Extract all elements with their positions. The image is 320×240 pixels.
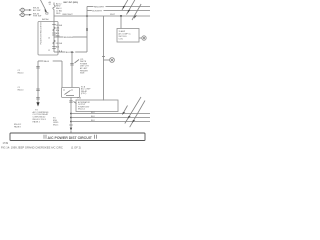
svg-text:F9 20A: F9 20A — [56, 42, 63, 45]
svg-text:RED/WHT: RED/WHT — [94, 6, 105, 8]
svg-text:BLK: BLK — [91, 116, 95, 118]
svg-text:COIL: COIL — [119, 38, 123, 40]
svg-text:8A14: 8A14 — [44, 60, 50, 63]
svg-text:8W-10: 8W-10 — [18, 72, 25, 74]
svg-text:WHT: WHT — [110, 14, 116, 16]
svg-text:BAT A0: BAT A0 — [42, 18, 49, 21]
svg-text:PAGE 2: PAGE 2 — [33, 120, 41, 123]
svg-text:BAT JNT (B50): BAT JNT (B50) — [64, 1, 79, 4]
svg-text:POWER DISTRIB CENTER: POWER DISTRIB CENTER — [40, 22, 42, 45]
svg-text:A/C POWER DIST CIRCUIT: A/C POWER DIST CIRCUIT — [48, 136, 93, 140]
svg-text:(PDC): (PDC) — [81, 93, 87, 95]
svg-text:FIG 14: 1999 JEEP GRAND CHEROK: FIG 14: 1999 JEEP GRAND CHEROKEE A/C CIR… — [1, 146, 63, 150]
svg-text:8W-20-2: 8W-20-2 — [78, 109, 85, 111]
svg-text:HTR SW: HTR SW — [33, 16, 41, 18]
svg-text:12: 12 — [48, 50, 50, 52]
svg-text:BLK: BLK — [91, 120, 95, 122]
svg-text:BLK/WHT: BLK/WHT — [92, 10, 102, 12]
svg-text:10: 10 — [48, 38, 50, 40]
svg-text:8W-15: 8W-15 — [53, 125, 58, 127]
svg-text:RED: RED — [56, 13, 61, 15]
svg-text:SIDE: SIDE — [80, 73, 85, 75]
svg-text:8W-10: 8W-10 — [18, 89, 25, 91]
svg-text:PAGE 8: PAGE 8 — [14, 125, 21, 128]
svg-text:A/C SW: A/C SW — [33, 9, 40, 12]
svg-text:BLK/WH: BLK/WH — [66, 52, 75, 54]
svg-text:(1 OF 2): (1 OF 2) — [71, 146, 81, 150]
svg-text:BLK: BLK — [91, 112, 95, 114]
svg-text:RED/WHT: RED/WHT — [63, 14, 74, 16]
svg-text:A14: A14 — [56, 46, 59, 49]
svg-text:1749: 1749 — [3, 142, 9, 145]
svg-text:RED/WH: RED/WH — [64, 37, 73, 39]
